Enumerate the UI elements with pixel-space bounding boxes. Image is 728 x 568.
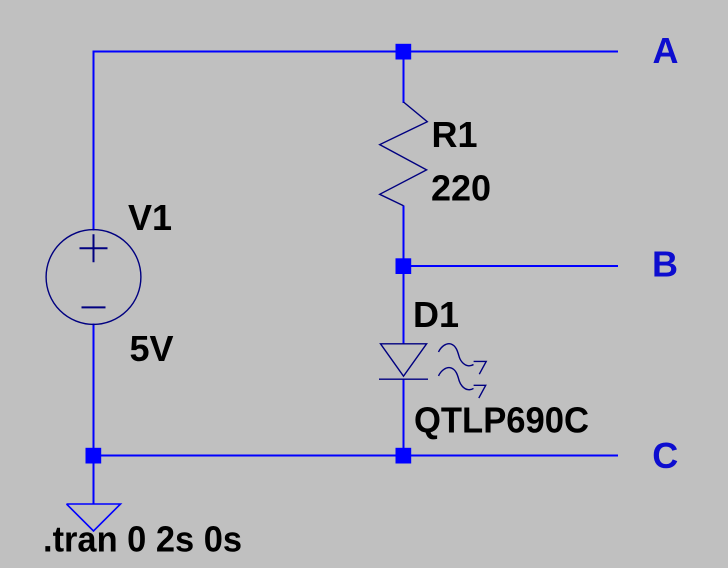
wire: left vertical from V1 bottom pin to ground	[93, 324, 95, 505]
wire: right vertical from R1 bottom through node B to D1 anode	[403, 206, 405, 345]
junction at node C left	[86, 448, 102, 464]
LED D1 cathode bar	[379, 378, 428, 380]
svg-text:R1: R1	[432, 114, 478, 155]
svg-text:A: A	[653, 30, 679, 71]
voltage source V1 circle	[46, 230, 141, 325]
svg-text:5V: 5V	[130, 328, 174, 369]
svg-text:.tran 0 2s 0s: .tran 0 2s 0s	[43, 518, 242, 559]
svg-text:V1: V1	[128, 197, 172, 238]
wire: right vertical from node A junction to R1 top	[403, 52, 405, 104]
LED light arrow 2 head	[474, 385, 486, 398]
junction at node C right	[396, 448, 412, 464]
LED light arrow 2 squiggle	[439, 368, 474, 390]
junction at node A	[396, 44, 412, 60]
wire: node B horizontal stub	[404, 265, 619, 267]
svg-text:220: 220	[431, 168, 491, 209]
svg-text:C: C	[652, 435, 678, 476]
LED D1 triangle	[381, 344, 427, 376]
wire: left vertical from corner to V1 top pin	[93, 51, 95, 231]
wire: bottom horizontal net C	[94, 455, 619, 457]
resistor R1 zigzag	[380, 102, 428, 206]
svg-text:B: B	[652, 244, 678, 285]
V1 plus sign	[80, 234, 108, 262]
wire: right vertical from D1 cathode to node C	[403, 380, 405, 456]
LED light arrow 1 head	[474, 361, 487, 374]
junction at node B	[396, 258, 412, 274]
LED light arrow 1 squiggle	[439, 344, 474, 366]
svg-text:QTLP690C: QTLP690C	[414, 399, 589, 440]
ground symbol	[67, 504, 121, 531]
wire: top horizontal net A	[94, 51, 619, 53]
V1 minus sign	[82, 306, 106, 308]
svg-text:D1: D1	[413, 294, 459, 335]
